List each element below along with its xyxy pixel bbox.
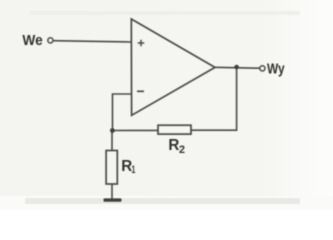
svg-text:1: 1 <box>132 164 136 176</box>
svg-text:We: We <box>22 33 42 49</box>
svg-text:2: 2 <box>179 144 185 156</box>
svg-text:Wy: Wy <box>267 62 285 78</box>
